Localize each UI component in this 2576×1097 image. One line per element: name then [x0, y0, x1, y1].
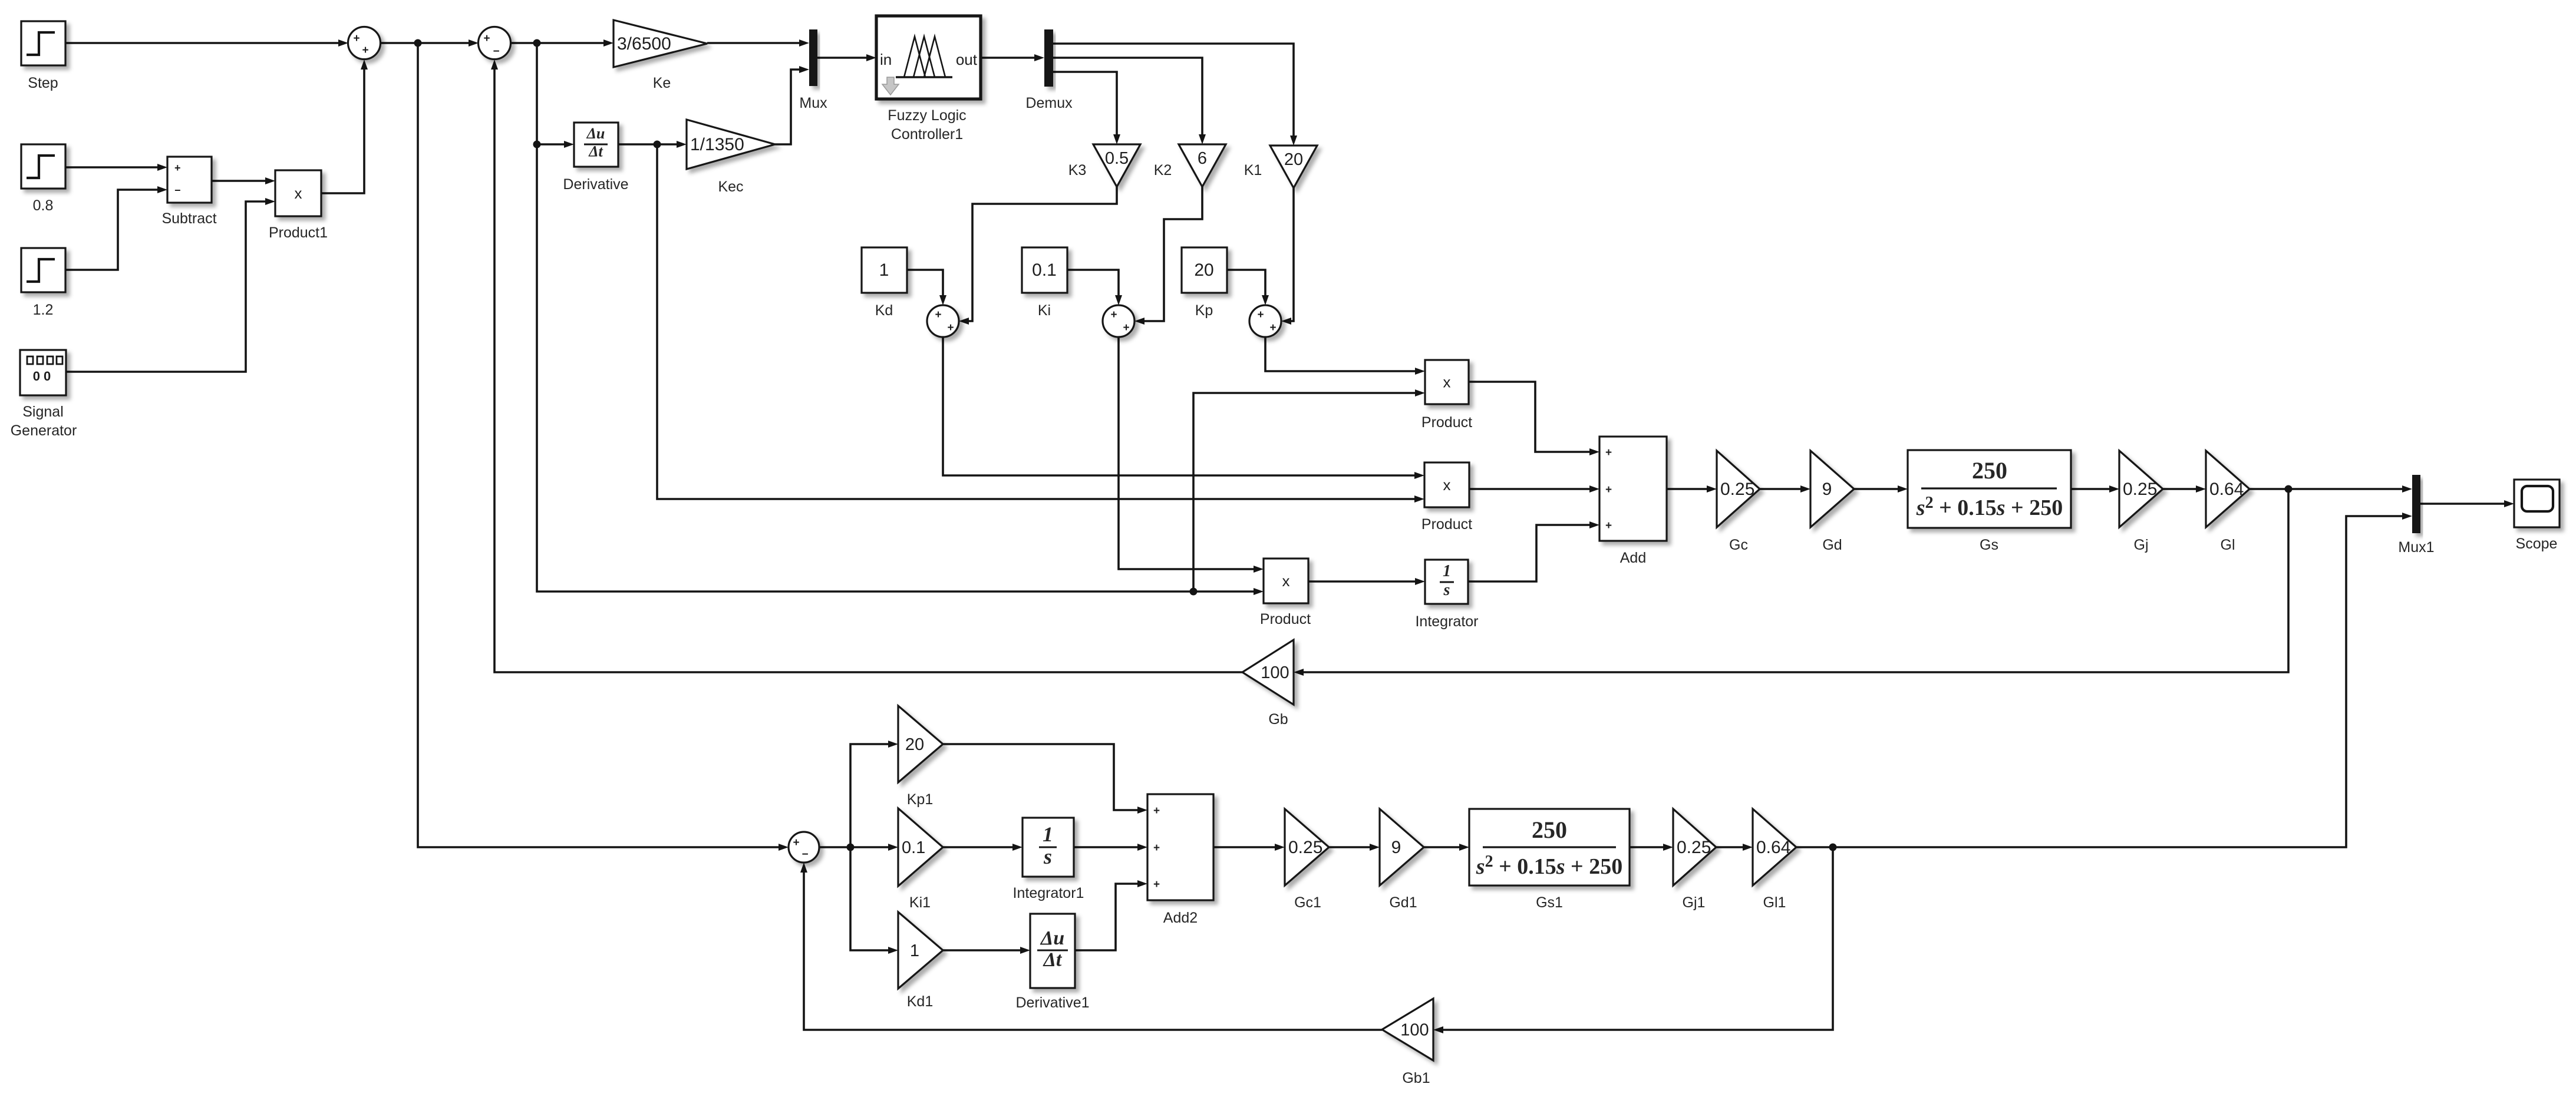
svg-text:Δt: Δt [588, 143, 603, 160]
svg-text:Derivative1: Derivative1 [1015, 994, 1089, 1011]
svg-text:1.2: 1.2 [33, 302, 54, 318]
svg-text:+: + [1123, 322, 1129, 334]
svg-text:250: 250 [1972, 457, 2007, 484]
svg-text:0.25: 0.25 [2123, 480, 2157, 499]
svg-text:Product1: Product1 [269, 224, 328, 241]
svg-text:Gj: Gj [2134, 537, 2149, 553]
svg-text:0.25: 0.25 [1677, 838, 1711, 857]
svg-text:+: + [1153, 805, 1160, 817]
svg-text:Gj1: Gj1 [1683, 894, 1706, 911]
svg-text:Ki: Ki [1038, 302, 1051, 319]
svg-text:1: 1 [910, 941, 919, 960]
svg-text:Add2: Add2 [1163, 910, 1198, 926]
svg-text:+: + [1153, 842, 1160, 854]
svg-text:+: + [947, 322, 954, 334]
svg-text:20: 20 [1194, 260, 1213, 280]
svg-text:K3: K3 [1068, 162, 1087, 179]
svg-text:+: + [1257, 309, 1264, 321]
svg-text:+: + [1110, 309, 1117, 321]
svg-text:Gd1: Gd1 [1389, 894, 1417, 911]
svg-text:0.8: 0.8 [33, 197, 54, 214]
svg-text:+: + [1269, 322, 1276, 334]
svg-text:6: 6 [1198, 149, 1207, 168]
svg-text:s2 + 0.15s + 250: s2 + 0.15s + 250 [1476, 853, 1622, 879]
svg-text:0.1: 0.1 [902, 838, 925, 857]
svg-text:Gc: Gc [1729, 537, 1748, 553]
svg-text:Δt: Δt [1043, 949, 1063, 971]
svg-text:+: + [483, 32, 490, 45]
svg-text:250: 250 [1532, 817, 1567, 843]
svg-text:Gb1: Gb1 [1402, 1070, 1430, 1086]
svg-text:1: 1 [1443, 562, 1451, 580]
svg-text:20: 20 [905, 735, 924, 754]
svg-text:Δu: Δu [586, 125, 605, 142]
svg-text:−: − [174, 184, 181, 196]
svg-text:K2: K2 [1154, 162, 1172, 179]
svg-text:0.64: 0.64 [2209, 480, 2244, 499]
svg-text:Gb: Gb [1268, 711, 1288, 728]
svg-text:+: + [1153, 878, 1160, 891]
svg-text:+: + [353, 32, 359, 45]
svg-text:Integrator: Integrator [1415, 613, 1478, 630]
svg-text:Step: Step [28, 75, 58, 91]
svg-text:Controller1: Controller1 [891, 126, 963, 143]
svg-text:0.1: 0.1 [1032, 260, 1057, 280]
svg-text:Kd: Kd [875, 302, 893, 319]
svg-text:Integrator1: Integrator1 [1013, 885, 1084, 901]
svg-text:0 0: 0 0 [33, 369, 51, 384]
svg-text:Kec: Kec [718, 179, 743, 195]
svg-text:x: x [295, 184, 302, 202]
svg-text:Product: Product [1421, 414, 1472, 431]
svg-text:−: − [493, 45, 499, 58]
svg-text:+: + [1605, 447, 1612, 459]
svg-text:Ki1: Ki1 [909, 894, 931, 911]
svg-text:1: 1 [1043, 822, 1053, 846]
svg-text:20: 20 [1284, 150, 1303, 169]
svg-text:0.64: 0.64 [1756, 838, 1790, 857]
svg-text:Gd: Gd [1822, 537, 1842, 553]
svg-text:Δu: Δu [1040, 927, 1064, 949]
svg-text:Mux: Mux [799, 95, 827, 111]
svg-text:x: x [1443, 476, 1451, 494]
svg-text:x: x [1282, 572, 1290, 590]
svg-text:Mux1: Mux1 [2398, 539, 2434, 556]
svg-text:Gl1: Gl1 [1763, 894, 1786, 911]
svg-text:3/6500: 3/6500 [617, 34, 671, 54]
svg-text:1/1350: 1/1350 [690, 135, 744, 154]
svg-text:Generator: Generator [11, 422, 77, 439]
svg-text:Kd1: Kd1 [907, 993, 933, 1010]
svg-text:0.25: 0.25 [1288, 838, 1322, 857]
svg-text:+: + [174, 162, 181, 174]
svg-text:0.5: 0.5 [1105, 149, 1129, 168]
svg-text:Ke: Ke [653, 75, 671, 91]
svg-text:Derivative: Derivative [563, 176, 628, 193]
svg-text:in: in [880, 51, 892, 68]
svg-text:x: x [1443, 374, 1451, 391]
svg-text:+: + [935, 309, 941, 321]
svg-text:Kp1: Kp1 [907, 791, 933, 808]
svg-text:K1: K1 [1244, 162, 1262, 179]
svg-text:s2 + 0.15s + 250: s2 + 0.15s + 250 [1916, 494, 2063, 520]
svg-text:Scope: Scope [2516, 536, 2558, 552]
svg-text:9: 9 [1391, 838, 1401, 857]
svg-text:Fuzzy Logic: Fuzzy Logic [888, 107, 966, 124]
svg-text:Gc1: Gc1 [1294, 894, 1321, 911]
svg-text:Product: Product [1260, 611, 1311, 627]
svg-text:Gs: Gs [1980, 537, 1998, 553]
svg-text:100: 100 [1400, 1021, 1429, 1040]
svg-text:Gl: Gl [2221, 537, 2235, 553]
svg-text:+: + [793, 837, 799, 849]
svg-text:out: out [956, 51, 978, 68]
svg-text:s: s [1043, 845, 1052, 868]
svg-text:+: + [362, 44, 368, 57]
svg-text:1: 1 [879, 260, 889, 280]
svg-text:100: 100 [1261, 663, 1289, 682]
svg-text:9: 9 [1822, 480, 1832, 499]
svg-text:Gs1: Gs1 [1536, 894, 1563, 911]
svg-text:+: + [1605, 484, 1612, 496]
svg-text:Demux: Demux [1025, 95, 1073, 111]
svg-text:Kp: Kp [1195, 302, 1213, 319]
svg-text:Add: Add [1620, 550, 1646, 566]
svg-text:Subtract: Subtract [161, 210, 216, 227]
svg-text:s: s [1443, 581, 1450, 599]
svg-text:0.25: 0.25 [1720, 480, 1754, 499]
svg-text:Signal: Signal [22, 404, 64, 420]
svg-text:Product: Product [1421, 516, 1472, 533]
svg-text:+: + [1605, 520, 1612, 532]
svg-text:−: − [802, 848, 808, 861]
